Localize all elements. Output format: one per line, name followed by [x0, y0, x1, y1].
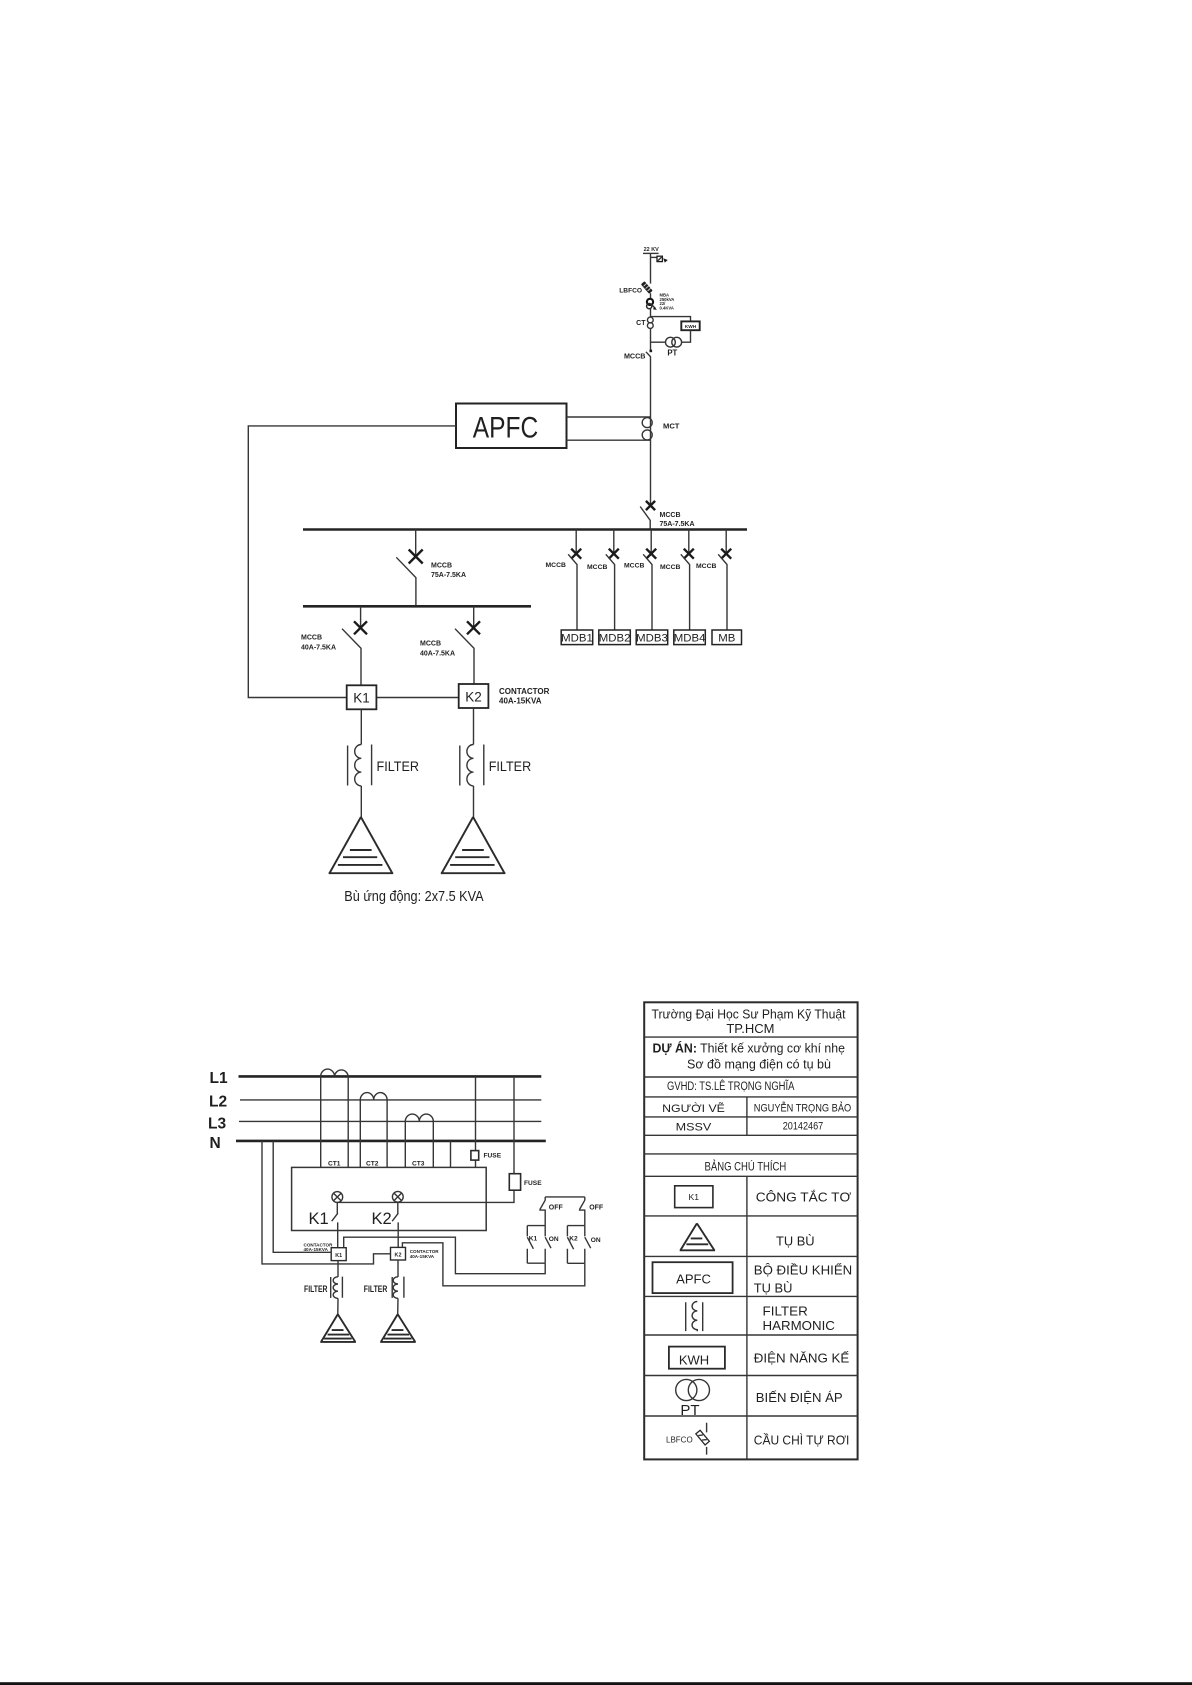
svg-text:Trường Đại Học Sư Phạm Kỹ Thuậ: Trường Đại Học Sư Phạm Kỹ Thuật	[652, 1007, 846, 1022]
svg-text:CÔNG TẮC TƠ: CÔNG TẮC TƠ	[756, 1190, 851, 1205]
svg-text:22 KV: 22 KV	[644, 247, 660, 253]
svg-text:N: N	[210, 1135, 221, 1152]
svg-text:TỤ BÙ: TỤ BÙ	[754, 1280, 793, 1295]
svg-text:MCCB: MCCB	[301, 635, 322, 642]
svg-text:K2: K2	[465, 689, 482, 704]
svg-text:CT1: CT1	[328, 1160, 341, 1167]
svg-text:Sơ đồ mạng điện có tụ bù: Sơ đồ mạng điện có tụ bù	[687, 1056, 831, 1071]
svg-text:K2: K2	[395, 1252, 402, 1258]
svg-text:L2: L2	[209, 1094, 227, 1111]
svg-text:TP.HCM: TP.HCM	[726, 1021, 774, 1036]
svg-text:KWH: KWH	[679, 1353, 709, 1368]
svg-text:FILTER: FILTER	[364, 1284, 388, 1294]
svg-text:K2: K2	[569, 1235, 578, 1242]
svg-text:MCCB: MCCB	[420, 641, 441, 648]
svg-text:APFC: APFC	[473, 411, 539, 444]
svg-text:ĐIỆN NĂNG KẾ: ĐIỆN NĂNG KẾ	[754, 1350, 850, 1365]
svg-text:40A-15KVA: 40A-15KVA	[499, 696, 542, 705]
svg-text:ON: ON	[549, 1236, 559, 1243]
svg-text:20142467: 20142467	[783, 1121, 824, 1133]
svg-text:FUSE: FUSE	[524, 1180, 542, 1187]
svg-text:K1: K1	[309, 1210, 329, 1228]
svg-text:40A-15KVA: 40A-15KVA	[410, 1254, 435, 1259]
svg-text:L3: L3	[208, 1115, 226, 1132]
svg-text:MCCB: MCCB	[624, 351, 646, 360]
svg-text:L1: L1	[210, 1070, 228, 1087]
svg-text:OFF: OFF	[589, 1204, 604, 1211]
svg-text:APFC: APFC	[676, 1272, 711, 1287]
svg-text:FILTER: FILTER	[489, 758, 532, 774]
svg-text:MCCB: MCCB	[660, 512, 681, 519]
svg-text:MCCB: MCCB	[660, 564, 680, 571]
svg-text:MDB2: MDB2	[599, 633, 631, 645]
svg-text:LBFCO: LBFCO	[666, 1436, 693, 1445]
svg-text:40A-7.5KA: 40A-7.5KA	[301, 644, 336, 651]
svg-text:FILTER: FILTER	[763, 1304, 808, 1319]
svg-text:FUSE: FUSE	[484, 1153, 502, 1160]
svg-text:MCCB: MCCB	[624, 563, 644, 570]
svg-text:K1: K1	[353, 691, 370, 706]
svg-text:CT3: CT3	[412, 1160, 425, 1167]
svg-text:MSSV: MSSV	[676, 1122, 712, 1134]
svg-text:MDB1: MDB1	[561, 633, 593, 645]
svg-text:TỤ BÙ: TỤ BÙ	[776, 1234, 815, 1249]
svg-text:ON: ON	[591, 1237, 601, 1244]
svg-text:FILTER: FILTER	[304, 1284, 328, 1294]
svg-text:MCT: MCT	[663, 422, 680, 431]
svg-text:CT2: CT2	[366, 1160, 379, 1167]
svg-text:Bù ứng động: 2x7.5 KVA: Bù ứng động: 2x7.5 KVA	[344, 889, 484, 905]
svg-text:MCCB: MCCB	[546, 562, 566, 569]
svg-text:CT: CT	[636, 320, 646, 327]
svg-text:BẢNG CHÚ THÍCH: BẢNG CHÚ THÍCH	[705, 1159, 787, 1174]
svg-text:NGUYỄN TRỌNG BẢO: NGUYỄN TRỌNG BẢO	[754, 1102, 851, 1115]
svg-text:MCCB: MCCB	[696, 563, 716, 570]
svg-text:MDB3: MDB3	[636, 633, 668, 645]
svg-text:K1: K1	[335, 1253, 342, 1259]
svg-text:MB: MB	[718, 633, 735, 645]
svg-text:HARMONIC: HARMONIC	[763, 1318, 836, 1333]
svg-text:CẦU CHÌ TỰ RƠI: CẦU CHÌ TỰ RƠI	[754, 1432, 850, 1447]
svg-text:DỰ ÁN: Thiết kế xưởng cơ khí n: DỰ ÁN: Thiết kế xưởng cơ khí nhẹ	[653, 1041, 846, 1056]
svg-text:MCCB: MCCB	[431, 563, 452, 570]
svg-text:K2: K2	[372, 1210, 392, 1228]
svg-text:MDB4: MDB4	[674, 633, 706, 645]
svg-text:KWH: KWH	[685, 324, 697, 330]
svg-text:MCCB: MCCB	[587, 564, 607, 571]
svg-text:FILTER: FILTER	[377, 758, 420, 774]
svg-text:40A-7.5KA: 40A-7.5KA	[420, 650, 455, 657]
svg-text:NGƯỜI VẼ: NGƯỜI VẼ	[662, 1102, 725, 1115]
svg-text:K1: K1	[529, 1235, 538, 1242]
svg-text:0.4KVA: 0.4KVA	[660, 306, 674, 311]
svg-text:BỘ ĐIỀU KHIỂN: BỘ ĐIỀU KHIỂN	[754, 1263, 852, 1278]
svg-text:LBFCO: LBFCO	[619, 288, 642, 295]
svg-text:CONTACTOR: CONTACTOR	[499, 687, 550, 696]
svg-text:BIẾN ĐIỆN ÁP: BIẾN ĐIỆN ÁP	[756, 1390, 843, 1405]
svg-text:75A-7.5KA: 75A-7.5KA	[660, 521, 695, 528]
svg-text:PT: PT	[667, 348, 677, 357]
svg-text:GVHD: TS.LÊ TRỌNG NGHĨA: GVHD: TS.LÊ TRỌNG NGHĨA	[667, 1080, 795, 1093]
svg-text:K1: K1	[689, 1192, 700, 1202]
svg-text:PT: PT	[680, 1402, 699, 1419]
svg-text:75A-7.5KA: 75A-7.5KA	[431, 572, 466, 579]
svg-text:OFF: OFF	[549, 1204, 564, 1211]
svg-text:40A-15KVA: 40A-15KVA	[304, 1247, 329, 1252]
